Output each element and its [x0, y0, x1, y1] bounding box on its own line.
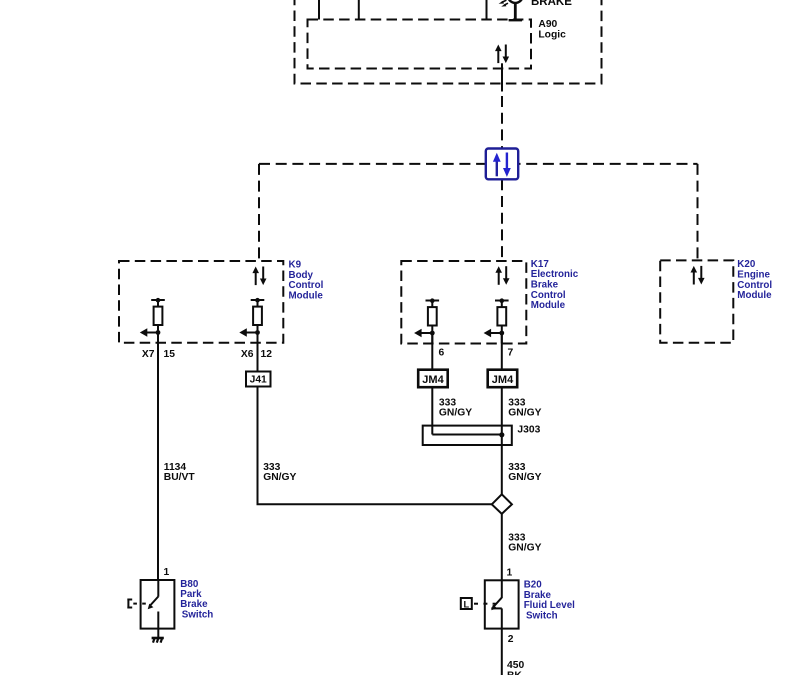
K20 serial data arrows — [691, 266, 705, 285]
svg-text:Module: Module — [289, 291, 324, 302]
wire from X7-15 down to B80 — [157, 333, 159, 581]
serial data arrows inside A90 logic — [495, 45, 509, 64]
wire pin7 to JM4 — [501, 333, 503, 370]
wire from right JM4 down through J303 to diamond — [501, 387, 503, 494]
wire stub 2 (cut off at top) — [358, 0, 360, 20]
svg-text:Switch: Switch — [526, 611, 558, 622]
dashed data link wire down to splice box — [501, 96, 503, 149]
connector JM4 (right) — [488, 370, 518, 388]
K9 pin X6-12 component — [239, 298, 264, 343]
ground G (chassis) — [152, 638, 164, 643]
wire from X6-12 down to J41 — [257, 333, 259, 372]
K17 pin 7 component — [484, 298, 509, 343]
svg-text:2: 2 — [508, 634, 514, 645]
B20 brake fluid level switch — [485, 580, 519, 628]
svg-text:1: 1 — [164, 567, 170, 578]
svg-text:Switch: Switch — [182, 609, 214, 620]
dashed drop to K9 — [258, 164, 260, 261]
wire from A90 logic down (solid) — [501, 63, 503, 91]
splice pack J303 — [423, 426, 512, 445]
svg-text:BK: BK — [507, 670, 522, 675]
K9 serial data arrows — [252, 267, 266, 286]
svg-text:JM4: JM4 — [422, 374, 444, 386]
K17 pin 6 component — [414, 298, 439, 343]
B80 actuator bracket — [127, 599, 145, 609]
svg-text:1: 1 — [507, 567, 513, 578]
wire from left JM4 into J303 — [431, 387, 433, 434]
horizontal dashed data link bus — [259, 163, 698, 165]
splice diamond — [492, 494, 512, 514]
svg-text:Module: Module — [531, 300, 566, 311]
label B80 Park Brake Switch — [180, 579, 213, 621]
dashed drop to K20 — [697, 164, 699, 261]
wire from B80 to ground — [157, 629, 159, 638]
wire from J41 down and right to splice diamond — [258, 387, 492, 505]
svg-text:GN/GY: GN/GY — [508, 542, 541, 553]
wire stub 1 (cut off at top) — [318, 0, 320, 20]
connector JM4 (left) — [418, 370, 448, 388]
K9 pin X7-15 component — [140, 298, 165, 343]
K20 engine control module dashed box — [660, 260, 733, 342]
K17 serial data arrows — [495, 266, 509, 285]
svg-text:Module: Module — [737, 290, 772, 301]
connector J41 — [246, 372, 271, 387]
K17 electronic brake control module dashed box — [401, 261, 526, 344]
svg-text:X7: X7 — [142, 349, 155, 360]
label K17 Electronic Brake Control Module — [531, 259, 579, 311]
svg-text:BU/VT: BU/VT — [164, 472, 196, 483]
label K20 Engine Control Module — [737, 259, 772, 301]
svg-text:Logic: Logic — [538, 29, 566, 40]
svg-text:GN/GY: GN/GY — [263, 472, 296, 483]
svg-text:6: 6 — [439, 348, 445, 359]
svg-text:7: 7 — [508, 348, 514, 359]
svg-text:JM4: JM4 — [492, 374, 514, 386]
B80 park brake switch — [141, 580, 175, 629]
wire pin6 to JM4 — [431, 333, 433, 370]
blue serial data gateway box — [486, 149, 518, 180]
instrument cluster A90 outer dashed box (top cut off) — [295, 0, 602, 84]
svg-text:J41: J41 — [250, 375, 267, 386]
indicator lamp (BRAKE telltale, cut off at top) — [499, 0, 523, 20]
svg-text:BRAKE: BRAKE — [531, 0, 572, 8]
svg-text:L: L — [464, 599, 470, 609]
B20 actuator L box — [461, 598, 496, 609]
wire from diamond to B20 — [501, 514, 503, 580]
label K9 Body Control Module — [289, 260, 324, 302]
svg-text:GN/GY: GN/GY — [508, 472, 541, 483]
label B20 Brake Fluid Level Switch — [524, 580, 575, 622]
wire stub 3 (cut off at top) — [486, 0, 488, 20]
dashed drop to K17 — [501, 179, 503, 261]
svg-text:12: 12 — [261, 349, 273, 360]
K9 body control module dashed box — [119, 261, 283, 343]
wire from B20 down (cut off at bottom) — [501, 629, 503, 675]
svg-text:J303: J303 — [517, 425, 540, 436]
svg-text:GN/GY: GN/GY — [439, 408, 472, 419]
svg-text:GN/GY: GN/GY — [508, 408, 541, 419]
A90 logic inner dashed box — [308, 20, 532, 69]
svg-text:15: 15 — [164, 349, 176, 360]
svg-text:X6: X6 — [241, 349, 254, 360]
